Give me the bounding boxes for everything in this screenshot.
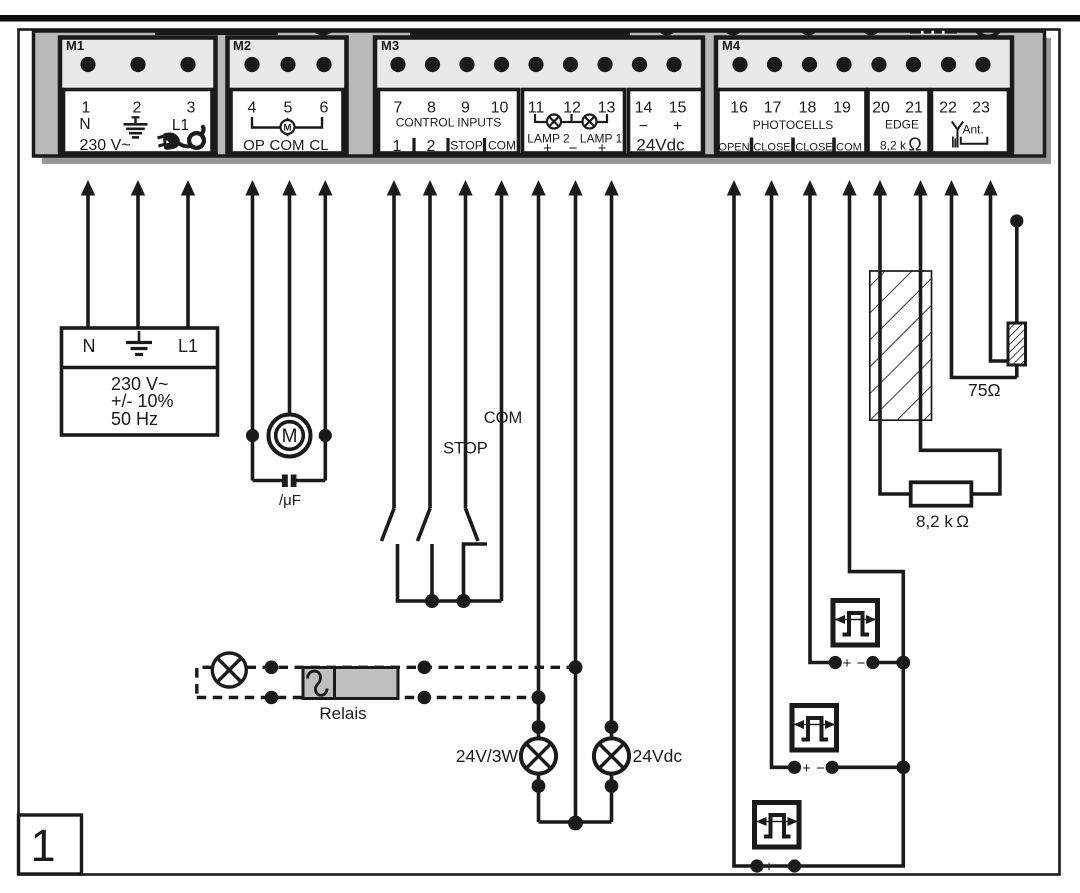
svg-text:24V/3W: 24V/3W bbox=[456, 746, 519, 766]
separator ticks bbox=[412, 138, 415, 153]
arrow t10 bbox=[494, 180, 508, 196]
svg-text:−: − bbox=[816, 760, 825, 777]
svg-text:L1: L1 bbox=[178, 336, 198, 356]
wire line11 bbox=[537, 193, 541, 740]
wire earth line2 bbox=[136, 193, 140, 328]
wire line16 bbox=[734, 193, 757, 866]
svg-text:OP: OP bbox=[243, 137, 265, 154]
svg-text:+: + bbox=[843, 655, 852, 672]
block M4 body bbox=[716, 38, 1012, 156]
svg-text:M3: M3 bbox=[381, 38, 399, 53]
svg-text:+: + bbox=[802, 760, 811, 777]
svg-text:17: 17 bbox=[764, 100, 782, 117]
relais lamp bbox=[212, 653, 246, 687]
arrow t7 bbox=[387, 180, 401, 196]
arrow t22 bbox=[944, 180, 958, 196]
svg-text:CL: CL bbox=[309, 137, 328, 154]
svg-text:11: 11 bbox=[528, 100, 545, 117]
svg-text:−: − bbox=[569, 140, 578, 157]
figure number box bbox=[19, 815, 82, 874]
svg-text:5: 5 bbox=[284, 100, 293, 117]
arrow t3 bbox=[181, 180, 195, 196]
svg-text:−: − bbox=[639, 118, 648, 135]
resistor 75ohm hatched bbox=[1008, 323, 1026, 365]
lower contact 9 bbox=[464, 544, 488, 601]
arrow t23 bbox=[983, 180, 997, 196]
lamp bracket wiring bbox=[535, 114, 607, 122]
block M1 body bbox=[60, 38, 216, 156]
arrow t12 bbox=[568, 180, 582, 196]
svg-text:15: 15 bbox=[669, 100, 687, 117]
terminal screw 3 bbox=[180, 57, 195, 72]
motor symbol in panel bbox=[252, 117, 322, 136]
wire line23 bbox=[991, 193, 1009, 361]
lamp 24V/3W bbox=[456, 720, 556, 793]
fragment bump 4 bbox=[724, 17, 743, 36]
svg-text:8: 8 bbox=[427, 100, 436, 117]
ground symbol bbox=[126, 331, 152, 355]
svg-text:COM: COM bbox=[484, 409, 523, 427]
relais box bbox=[303, 668, 398, 724]
terminal screw 1 bbox=[80, 57, 95, 72]
svg-text:N: N bbox=[83, 336, 96, 356]
svg-text:CONTROL INPUTS: CONTROL INPUTS bbox=[396, 116, 502, 130]
lower contact 7 bbox=[396, 544, 400, 601]
switch blade 8 bbox=[418, 509, 431, 542]
antenna symbol bbox=[952, 122, 988, 148]
lower contact 8 bbox=[430, 544, 434, 601]
fragment bar 2 bbox=[410, 25, 630, 36]
M3 24Vdc white panel bbox=[629, 90, 703, 154]
wire N line1 bbox=[86, 193, 90, 328]
svg-text:+: + bbox=[598, 140, 607, 157]
top black bar bbox=[0, 15, 1080, 22]
svg-text:COM: COM bbox=[488, 139, 516, 153]
svg-text:1: 1 bbox=[82, 100, 91, 117]
arrow t9 bbox=[458, 180, 472, 196]
M4 antenna white panel bbox=[932, 90, 1009, 154]
svg-text:230 V~: 230 V~ bbox=[80, 137, 131, 154]
dashed lower line bbox=[197, 696, 539, 699]
capacitor plates bbox=[282, 475, 288, 488]
svg-text:OPEN: OPEN bbox=[718, 142, 749, 154]
plug icon bbox=[158, 127, 204, 150]
M3 lamps white panel bbox=[523, 90, 625, 154]
svg-text:CLOSE: CLOSE bbox=[795, 142, 832, 154]
arrow t17 bbox=[764, 180, 778, 196]
block M2 body bbox=[228, 38, 347, 156]
wire line21 bbox=[921, 193, 1000, 494]
wire L1 line3 bbox=[186, 193, 190, 328]
photocell 2 bbox=[788, 706, 910, 777]
svg-text:STOP: STOP bbox=[443, 440, 488, 458]
svg-text:24Vdc: 24Vdc bbox=[636, 136, 685, 155]
arrow t11 bbox=[531, 180, 545, 196]
svg-text:+: + bbox=[765, 859, 774, 876]
relais dots bbox=[265, 661, 279, 675]
svg-text:1: 1 bbox=[393, 138, 402, 155]
svg-text:EDGE: EDGE bbox=[885, 118, 919, 132]
terminal screw 4 bbox=[244, 57, 259, 72]
M4 edge white panel bbox=[868, 90, 929, 154]
wire line22 bbox=[952, 193, 1017, 378]
svg-text:12: 12 bbox=[563, 100, 581, 117]
arrow t4 bbox=[245, 180, 259, 196]
svg-text:L1: L1 bbox=[172, 117, 189, 134]
switch blade 9 bbox=[466, 509, 479, 542]
motor loop bottom left bbox=[253, 479, 283, 483]
motor loop right bbox=[323, 436, 327, 481]
ground symbol in panel bbox=[124, 117, 148, 137]
wire line18 bbox=[810, 193, 835, 663]
svg-text:−: − bbox=[857, 655, 866, 672]
wire line9 STOP bbox=[464, 193, 468, 509]
svg-text:−: − bbox=[779, 859, 788, 876]
fragment circle left bbox=[113, 11, 135, 33]
230V supply box bbox=[62, 328, 218, 435]
dashed upper line bbox=[197, 667, 212, 697]
motor loop left bbox=[251, 436, 255, 481]
svg-text:PHOTOCELLS: PHOTOCELLS bbox=[753, 118, 833, 132]
junction dot line11 lower dashed bbox=[532, 691, 546, 705]
terminal screws 16-23 bbox=[732, 57, 747, 72]
motor loop bottom right bbox=[297, 479, 326, 483]
junction dot line12 upper dashed bbox=[569, 660, 583, 674]
arrow t2 bbox=[131, 180, 145, 196]
svg-text:7: 7 bbox=[394, 100, 403, 117]
arrow t18 bbox=[803, 180, 817, 196]
svg-text:M: M bbox=[284, 123, 292, 134]
arrow t6 bbox=[318, 180, 332, 196]
svg-text:1: 1 bbox=[30, 820, 55, 871]
svg-text:M2: M2 bbox=[233, 38, 251, 53]
arrow t5 bbox=[282, 180, 296, 196]
svg-text:Ω: Ω bbox=[908, 135, 921, 155]
wire line6 CL bbox=[323, 193, 327, 436]
photocell2 minus link bbox=[832, 765, 903, 769]
svg-text:Ant.: Ant. bbox=[963, 123, 984, 137]
terminal screw 5 bbox=[280, 57, 295, 72]
fragment bump 6 bbox=[862, 17, 881, 36]
fragment slit bar bbox=[910, 26, 957, 34]
svg-text:4: 4 bbox=[248, 100, 257, 117]
antenna dot bbox=[1010, 214, 1023, 227]
svg-text:+: + bbox=[673, 118, 682, 135]
svg-text:M4: M4 bbox=[722, 38, 741, 53]
photocell 1 bbox=[829, 601, 910, 673]
wire line7 bbox=[392, 193, 396, 509]
switch blade 7 bbox=[382, 509, 395, 542]
svg-text:Relais: Relais bbox=[319, 704, 366, 723]
wire line5 COM motor bbox=[288, 193, 292, 414]
lamp symbol small 1 bbox=[583, 115, 597, 129]
svg-text:8,2 k: 8,2 k bbox=[880, 139, 907, 153]
arrow t20 bbox=[873, 180, 887, 196]
wire line8 bbox=[428, 193, 432, 509]
M1 white panel bbox=[64, 90, 213, 154]
redraw lines through hatch bbox=[878, 271, 882, 420]
separator ticks bbox=[750, 138, 754, 155]
wire line20 bbox=[880, 193, 911, 494]
svg-text:16: 16 bbox=[730, 100, 748, 117]
svg-text:+/- 10%: +/- 10% bbox=[111, 391, 174, 411]
fragment bar 1 bbox=[155, 25, 278, 35]
svg-text:M: M bbox=[282, 426, 298, 447]
svg-text:3: 3 bbox=[187, 100, 196, 117]
lamps bottom junction dot bbox=[568, 816, 583, 831]
terminal screw 2 bbox=[130, 57, 145, 72]
block M3 body bbox=[375, 38, 703, 156]
svg-text:COM: COM bbox=[836, 142, 862, 154]
svg-text:9: 9 bbox=[461, 100, 470, 117]
svg-text:19: 19 bbox=[833, 100, 851, 117]
switch bottom junction dots bbox=[425, 594, 439, 608]
edge sensor hatched box bbox=[870, 271, 932, 420]
svg-text:CLOSE: CLOSE bbox=[753, 142, 790, 154]
junction dot left bbox=[246, 429, 259, 442]
svg-text:2: 2 bbox=[133, 100, 142, 117]
terminal board body bbox=[34, 31, 1045, 156]
board shadow bbox=[42, 38, 1051, 164]
terminal screw 6 bbox=[316, 57, 331, 72]
svg-text:13: 13 bbox=[598, 100, 616, 117]
svg-text:20: 20 bbox=[872, 100, 890, 117]
svg-text:M1: M1 bbox=[66, 38, 84, 53]
fragment bump 3 bbox=[658, 17, 677, 36]
svg-text:18: 18 bbox=[799, 100, 817, 117]
lamp1 bottom lead bbox=[537, 772, 541, 822]
lamps bottom wire bbox=[539, 820, 612, 824]
wire line12 bbox=[574, 193, 578, 823]
switch common bottom wire bbox=[396, 599, 502, 603]
svg-text:24Vdc: 24Vdc bbox=[633, 746, 683, 766]
antenna resistor tail bbox=[1015, 365, 1019, 378]
lamp2 bottom lead bbox=[610, 772, 614, 822]
motor outer circle bbox=[269, 415, 311, 457]
svg-text:75Ω: 75Ω bbox=[968, 380, 1001, 400]
svg-text:50 Hz: 50 Hz bbox=[111, 409, 158, 429]
lamp 24Vdc bbox=[594, 720, 682, 793]
M2 white panel bbox=[231, 90, 343, 154]
motor M bbox=[246, 415, 332, 510]
arrow t16 bbox=[727, 180, 741, 196]
wire line13 bbox=[610, 193, 614, 740]
photocell1 minus link bbox=[873, 661, 903, 665]
arrow t8 bbox=[423, 180, 437, 196]
M3 control inputs white panel bbox=[379, 90, 519, 154]
clipped board-top fragments bbox=[113, 10, 1002, 37]
arrow t19 bbox=[842, 180, 856, 196]
svg-text:2: 2 bbox=[427, 138, 436, 155]
svg-text:14: 14 bbox=[635, 100, 653, 117]
terminal screws 7-15 bbox=[390, 57, 405, 72]
svg-text:/μF: /μF bbox=[279, 492, 301, 509]
motor inner circle bbox=[276, 422, 304, 450]
fragment ring arc bbox=[975, 10, 1002, 37]
svg-text:6: 6 bbox=[320, 100, 329, 117]
lamp symbol small 2 bbox=[547, 115, 561, 129]
svg-text:22: 22 bbox=[939, 100, 957, 117]
svg-text:STOP: STOP bbox=[450, 139, 482, 153]
arrow t13 bbox=[604, 180, 618, 196]
wire line17 bbox=[772, 193, 795, 767]
arrow t21 bbox=[913, 180, 927, 196]
svg-text:21: 21 bbox=[905, 100, 923, 117]
fragment circle 2 bbox=[310, 10, 336, 36]
wire line10 COM bbox=[500, 193, 504, 601]
photocell 3 bbox=[750, 803, 801, 876]
junction dot right bbox=[319, 429, 332, 442]
arrow t1 bbox=[81, 180, 95, 196]
svg-text:8,2 k Ω: 8,2 k Ω bbox=[916, 512, 969, 531]
resistor 8.2k bbox=[911, 482, 972, 505]
svg-text:23: 23 bbox=[972, 100, 990, 117]
sine symbol bbox=[308, 671, 328, 695]
fragment bump 5 bbox=[799, 17, 818, 36]
photocell3 plus link bbox=[757, 864, 795, 868]
antenna lead bbox=[1015, 221, 1019, 323]
svg-text:COM: COM bbox=[270, 137, 305, 154]
svg-text:+: + bbox=[543, 140, 552, 157]
M4 photocells white panel bbox=[718, 90, 866, 154]
wire line19 bbox=[795, 193, 904, 866]
relais dashed circuit bbox=[197, 667, 576, 697]
svg-text:10: 10 bbox=[491, 100, 509, 117]
svg-text:N: N bbox=[79, 116, 90, 133]
wire line4 OP bbox=[251, 193, 255, 436]
